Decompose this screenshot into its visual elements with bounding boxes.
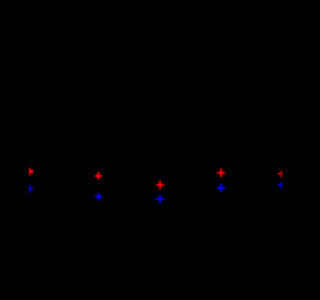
unit 2: red plus charge: [95, 172, 102, 180]
unit 3: blue plus charge: [156, 195, 164, 203]
unit 5: red positive-charge marker (right bracket end, arm pointing left): [278, 170, 282, 178]
unit 4: blue plus charge: [217, 184, 225, 192]
unit 2: blue plus charge: [95, 193, 102, 200]
unit 1: blue positive-charge marker (left bracket end, arm pointing right): [29, 185, 33, 194]
unit 5: blue positive-charge marker (right bracket end, arm pointing left): [278, 182, 282, 189]
unit 4: red plus charge: [217, 169, 225, 177]
unit 1: red positive-charge marker (left bracket end, arm pointing right): [29, 167, 33, 175]
unit 3: red plus charge: [156, 181, 164, 189]
